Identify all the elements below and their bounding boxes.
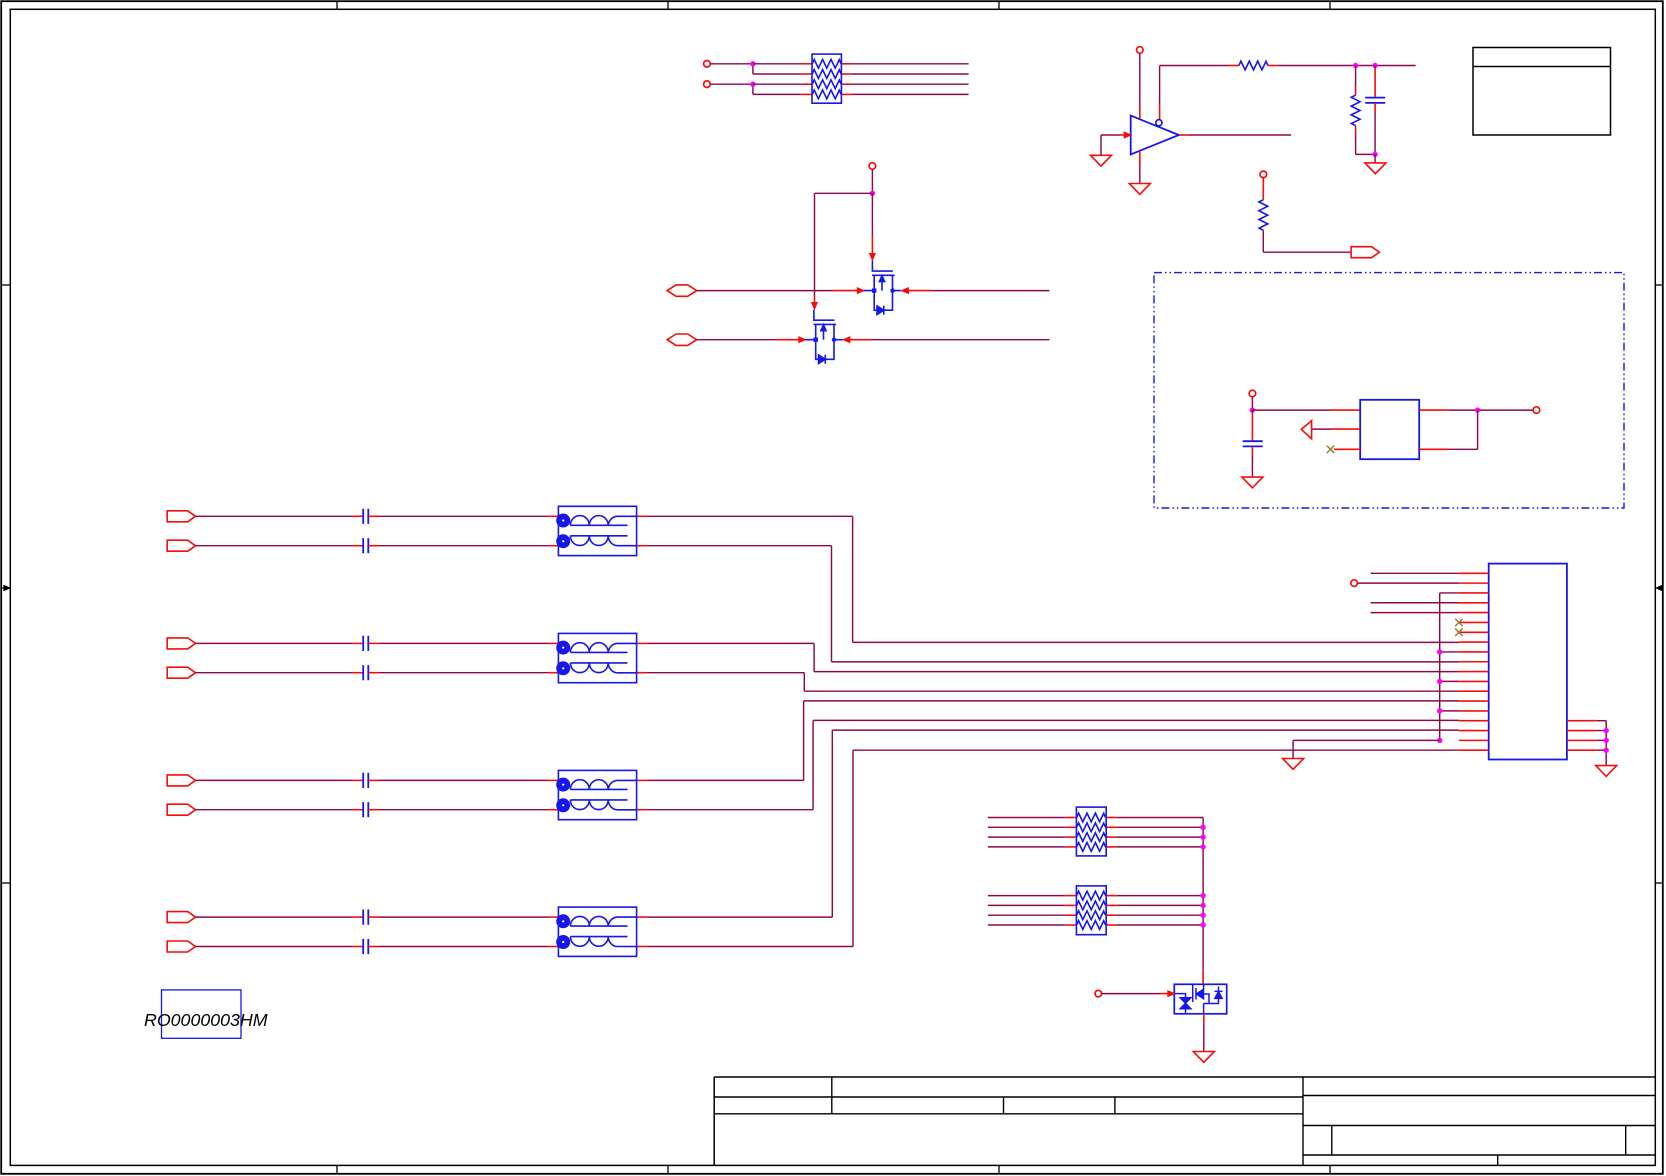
- wire: [1293, 739, 1440, 741]
- junction: [1250, 407, 1255, 412]
- junction: [1200, 893, 1205, 898]
- title block row line A: [714, 1096, 1303, 1098]
- terminal J1 pin2: [704, 81, 711, 88]
- capacitor C3+: [363, 773, 368, 788]
- wire: [832, 729, 1459, 731]
- pin arrow: [902, 288, 908, 293]
- wire: [831, 730, 833, 917]
- pin: [1066, 817, 1077, 819]
- wire: [1102, 993, 1160, 995]
- no-connect: [1455, 619, 1462, 626]
- junction: [750, 61, 755, 66]
- wire: [853, 749, 1459, 751]
- wire: [646, 946, 853, 948]
- wire: [1357, 582, 1459, 584]
- wire: [379, 809, 549, 811]
- wire: [697, 290, 834, 292]
- pin: [637, 672, 647, 674]
- wire: [1440, 710, 1459, 712]
- port LAN3-: [167, 804, 195, 815]
- wire: [379, 515, 549, 517]
- pin: [353, 809, 363, 811]
- pin: [1160, 993, 1168, 995]
- pin: [1331, 409, 1360, 411]
- wire: [379, 779, 549, 781]
- pin: [549, 545, 559, 547]
- wire: [1371, 602, 1459, 604]
- wire: [831, 546, 833, 662]
- wire: [753, 83, 802, 85]
- pin 6: [1459, 621, 1489, 623]
- resistor R1: [1239, 61, 1268, 70]
- junction: [1437, 708, 1442, 713]
- drawing number box: [162, 990, 242, 1038]
- wire: [1117, 924, 1203, 926]
- top zone tick 3: [998, 1, 1000, 9]
- wire: [1160, 65, 1229, 67]
- junction: [1200, 922, 1205, 927]
- transistor Q1: [864, 261, 902, 315]
- pin arrow: [799, 337, 805, 342]
- pin 18r: [1567, 739, 1597, 741]
- pin: [871, 236, 873, 255]
- wire: [710, 63, 753, 65]
- pin: [1202, 971, 1204, 985]
- pin 7: [1459, 631, 1489, 633]
- wire: [1117, 836, 1203, 838]
- resistor RN1-3: [812, 80, 841, 89]
- terminal VIN: [1249, 390, 1256, 397]
- junction: [1604, 748, 1609, 753]
- wire: [646, 642, 814, 644]
- wire: [1203, 1024, 1205, 1052]
- wire: [1355, 66, 1357, 87]
- wire: [813, 643, 815, 671]
- bottom zone tick 1: [336, 1165, 338, 1173]
- pin 2: [1459, 582, 1489, 584]
- wire: [803, 673, 805, 692]
- junction: [1200, 844, 1205, 849]
- pin: [353, 642, 363, 644]
- wire: [852, 83, 969, 85]
- IC U1 body: [1489, 564, 1567, 760]
- title block right divider 1: [1331, 1126, 1333, 1156]
- wire: [1100, 135, 1102, 155]
- pin: [1179, 134, 1189, 136]
- wire: [196, 545, 354, 547]
- regulator U3 body: [1360, 400, 1419, 459]
- wire: [646, 809, 813, 811]
- pin 10: [1459, 661, 1489, 663]
- no-connect: [1455, 629, 1462, 636]
- wire: [196, 916, 354, 918]
- resistor RN3-3: [1077, 833, 1106, 842]
- pin 11: [1459, 671, 1489, 673]
- pin: [1268, 65, 1278, 67]
- wire: [1597, 730, 1607, 732]
- wire: [804, 700, 1459, 702]
- junction: [1372, 152, 1377, 157]
- pin: [841, 93, 851, 95]
- pin: [1106, 904, 1117, 906]
- no-connect: [1327, 446, 1334, 453]
- port LAN2-: [167, 667, 195, 678]
- wire: [379, 642, 549, 644]
- port OUT1: [1351, 247, 1379, 258]
- junction: [1475, 407, 1480, 412]
- capacitor C2-: [363, 665, 368, 680]
- wire: [803, 701, 805, 781]
- ground: [1193, 1052, 1214, 1063]
- pin 9: [1459, 651, 1489, 653]
- pin: [637, 545, 647, 547]
- wire: [1252, 409, 1331, 411]
- wire: [1189, 134, 1291, 136]
- pin arrow: [843, 337, 849, 342]
- pin: [1139, 106, 1141, 119]
- junction: [1604, 738, 1609, 743]
- pin 13: [1459, 690, 1489, 692]
- pin: [841, 63, 851, 65]
- pin: [1106, 924, 1117, 926]
- pin 18: [1459, 739, 1489, 741]
- pin: [353, 545, 363, 547]
- pin: [368, 642, 378, 644]
- wire: [988, 826, 1066, 828]
- resistor RN4-1: [1077, 891, 1106, 900]
- port LAN2+: [167, 638, 195, 649]
- capacitor C4-: [363, 939, 368, 954]
- pin: [802, 93, 812, 95]
- wire: [804, 690, 1459, 692]
- wire: [1159, 66, 1161, 105]
- wire: [871, 193, 873, 235]
- gate arrow Q2: [812, 303, 817, 309]
- top zone tick 1: [336, 1, 338, 9]
- wire: [1202, 818, 1204, 971]
- pin 16r: [1567, 720, 1597, 722]
- pin 3: [1459, 592, 1489, 594]
- wire: [1251, 397, 1253, 410]
- pin: [637, 515, 647, 517]
- wire: [646, 545, 831, 547]
- revision table box: [1473, 48, 1611, 136]
- pin: [841, 73, 851, 75]
- port LAN1+: [167, 511, 195, 522]
- junction: [1200, 834, 1205, 839]
- left zone tick 1: [1, 284, 10, 286]
- resistor RN4-2: [1077, 901, 1106, 910]
- port EN arrow: [1301, 421, 1311, 439]
- pin: [1066, 904, 1077, 906]
- pin: [637, 809, 647, 811]
- wire: [1374, 154, 1376, 163]
- pin 19: [1459, 749, 1489, 751]
- title block row line B: [714, 1113, 1303, 1115]
- pin: [1229, 65, 1239, 67]
- title block right row line C: [1303, 1154, 1655, 1156]
- wire: [1449, 448, 1478, 450]
- wire: [1597, 739, 1607, 741]
- pin: [1119, 134, 1125, 136]
- junction: [870, 191, 875, 196]
- pin: [1419, 409, 1449, 411]
- resistor network RN4 body: [1076, 886, 1106, 935]
- wire: [1251, 410, 1253, 414]
- bottom zone tick 4: [1329, 1165, 1331, 1173]
- pin: [637, 916, 647, 918]
- wire: [196, 946, 354, 948]
- wire: [697, 339, 775, 341]
- resistor network RN3 body: [1076, 807, 1106, 856]
- port PHY1+: [667, 285, 697, 296]
- pin: [802, 83, 812, 85]
- pin: [1066, 924, 1077, 926]
- wire: [1292, 740, 1294, 758]
- resistor RN3-1: [1077, 813, 1106, 822]
- wire: [710, 83, 753, 85]
- revision table divider: [1473, 66, 1611, 68]
- pin: [549, 916, 559, 918]
- resistor RN3-2: [1077, 823, 1106, 832]
- ground: [1283, 759, 1304, 770]
- wire: [1262, 230, 1264, 252]
- title block outline: [714, 1077, 1655, 1165]
- TVS diode array D1: [1174, 984, 1226, 1014]
- top zone tick 2: [667, 1, 669, 9]
- pin: [908, 290, 931, 292]
- wire: [1117, 895, 1203, 897]
- ground: [1091, 155, 1112, 166]
- terminal J1 pin1: [704, 61, 711, 68]
- pin: [1106, 895, 1117, 897]
- pin 17r: [1567, 730, 1597, 732]
- wire: [1371, 612, 1459, 614]
- wire: [1263, 251, 1351, 253]
- ground: [1242, 477, 1263, 488]
- port LAN3+: [167, 775, 195, 786]
- pin: [368, 515, 378, 517]
- pin: [353, 946, 363, 948]
- svg-text:RO0000003HM: RO0000003HM: [144, 1010, 268, 1030]
- pin: [1066, 836, 1077, 838]
- ground: [1129, 184, 1150, 195]
- pin: [1334, 448, 1360, 450]
- pin: [637, 779, 647, 781]
- resistor R3: [1259, 200, 1268, 230]
- resistor RN1-4: [812, 90, 841, 99]
- pin: [368, 916, 378, 918]
- wire: [1312, 428, 1331, 430]
- resistor network RN1 body: [812, 54, 841, 103]
- pin: [1106, 914, 1117, 916]
- pin: [1331, 428, 1360, 430]
- pin: [833, 290, 858, 292]
- capacitor C1: [1365, 98, 1385, 103]
- wire: [1371, 572, 1459, 574]
- wire: [988, 895, 1066, 897]
- wire: [1440, 592, 1459, 594]
- wire: [752, 64, 754, 74]
- left zone tick 2: [1, 882, 10, 884]
- junction: [1437, 738, 1442, 743]
- pin: [1262, 178, 1264, 200]
- pin: [368, 946, 378, 948]
- title block right divider 3: [1497, 1155, 1499, 1165]
- wire: [852, 750, 854, 946]
- wire: [988, 924, 1066, 926]
- pin: [353, 779, 363, 781]
- wire: [1117, 904, 1203, 906]
- function outline (dash-dot box): [1154, 273, 1624, 508]
- pin: [353, 672, 363, 674]
- wire: [832, 661, 1459, 663]
- inductor L1 common-mode choke: [556, 506, 636, 555]
- title block right row line B: [1303, 1125, 1655, 1127]
- pin 12: [1459, 680, 1489, 682]
- capacitor C2: [1243, 441, 1263, 446]
- pin: [368, 809, 378, 811]
- resistor RN1-2: [812, 70, 841, 79]
- capacitor C2+: [363, 636, 368, 651]
- right zone tick 1: [1655, 284, 1663, 286]
- wire: [1139, 166, 1141, 184]
- pin: [549, 779, 559, 781]
- terminal VOUT: [1533, 407, 1540, 414]
- junction: [1372, 63, 1377, 68]
- terminal VREF: [1260, 171, 1267, 178]
- port LAN4+: [167, 912, 195, 923]
- terminal TVS: [1095, 990, 1102, 997]
- wire: [753, 93, 802, 95]
- wire bus: [1439, 593, 1441, 740]
- wire: [753, 63, 802, 65]
- pin: [1106, 817, 1117, 819]
- inductor L3 common-mode choke: [556, 770, 636, 819]
- pin 16: [1459, 720, 1489, 722]
- pin: [1203, 1014, 1205, 1024]
- wire: [852, 93, 969, 95]
- wire: [1117, 817, 1203, 819]
- wire: [1597, 749, 1607, 751]
- pin: [1251, 414, 1253, 441]
- wire: [813, 719, 1459, 721]
- wire: [852, 63, 969, 65]
- pin 4: [1459, 602, 1489, 604]
- pin 1: [1459, 572, 1489, 574]
- title block divider 1: [831, 1077, 833, 1114]
- capacitor C1-: [363, 538, 368, 553]
- resistor R2: [1351, 95, 1360, 126]
- pin: [1251, 446, 1253, 455]
- resistor RN4-4: [1077, 921, 1106, 930]
- pin 14: [1459, 700, 1489, 702]
- inductor L4 common-mode choke: [556, 907, 636, 956]
- pin: [1106, 846, 1117, 848]
- ground: [1365, 163, 1386, 174]
- pin: [368, 672, 378, 674]
- port LAN1-: [167, 540, 195, 551]
- wire: [812, 720, 814, 809]
- wire: [1440, 651, 1459, 653]
- gate arrow Q1: [870, 254, 875, 260]
- pin: [353, 515, 363, 517]
- wire: [646, 916, 832, 918]
- pin: [1419, 448, 1449, 450]
- wire: [1101, 134, 1119, 136]
- bottom zone tick 3: [998, 1165, 1000, 1173]
- capacitor C4+: [363, 910, 368, 925]
- junction: [1604, 728, 1609, 733]
- pin arrow: [857, 288, 863, 293]
- wire: [379, 545, 549, 547]
- wire: [1597, 720, 1607, 722]
- wire: [1139, 53, 1141, 106]
- wire: [931, 290, 1049, 292]
- wire: [1251, 455, 1253, 477]
- wire: [1440, 680, 1459, 682]
- pin: [1139, 151, 1141, 166]
- pin: [1374, 70, 1376, 98]
- pin: [814, 297, 816, 304]
- pin: [841, 83, 851, 85]
- title block right divider 2: [1625, 1126, 1627, 1156]
- junction: [750, 82, 755, 87]
- junction: [1437, 679, 1442, 684]
- wire: [196, 779, 354, 781]
- pin: [1374, 103, 1376, 112]
- pin: [1355, 87, 1357, 96]
- ground: [1596, 766, 1617, 777]
- wire: [752, 84, 754, 94]
- wire: [988, 836, 1066, 838]
- pin: [353, 916, 363, 918]
- wire: [379, 672, 549, 674]
- left center arrow: [1, 586, 9, 591]
- pin 19r: [1567, 749, 1597, 751]
- wire: [814, 193, 816, 296]
- wire: [815, 192, 873, 194]
- wire: [196, 672, 354, 674]
- wire: [852, 73, 969, 75]
- pin: [549, 515, 559, 517]
- wire: [646, 515, 852, 517]
- pin: [1106, 836, 1117, 838]
- pin: [802, 63, 812, 65]
- resistor RN3-4: [1077, 843, 1106, 852]
- title block divider 3: [1114, 1097, 1116, 1114]
- port PHY1-: [667, 334, 697, 345]
- right zone tick 2: [1655, 882, 1663, 884]
- pin 15: [1459, 710, 1489, 712]
- resistor RN1-1: [812, 59, 841, 68]
- pin 17: [1459, 730, 1489, 732]
- wire: [646, 779, 803, 781]
- wire: [988, 846, 1066, 848]
- pin arrow: [1168, 991, 1174, 996]
- wire: [379, 946, 549, 948]
- pin: [802, 73, 812, 75]
- wire: [988, 914, 1066, 916]
- title block divider 2: [1003, 1097, 1005, 1114]
- transistor Q2: [805, 310, 843, 364]
- pin: [549, 672, 559, 674]
- top zone tick 4: [1329, 1, 1331, 9]
- junction: [1437, 649, 1442, 654]
- wire: [872, 339, 1049, 341]
- pin: [549, 809, 559, 811]
- pin 5: [1459, 612, 1489, 614]
